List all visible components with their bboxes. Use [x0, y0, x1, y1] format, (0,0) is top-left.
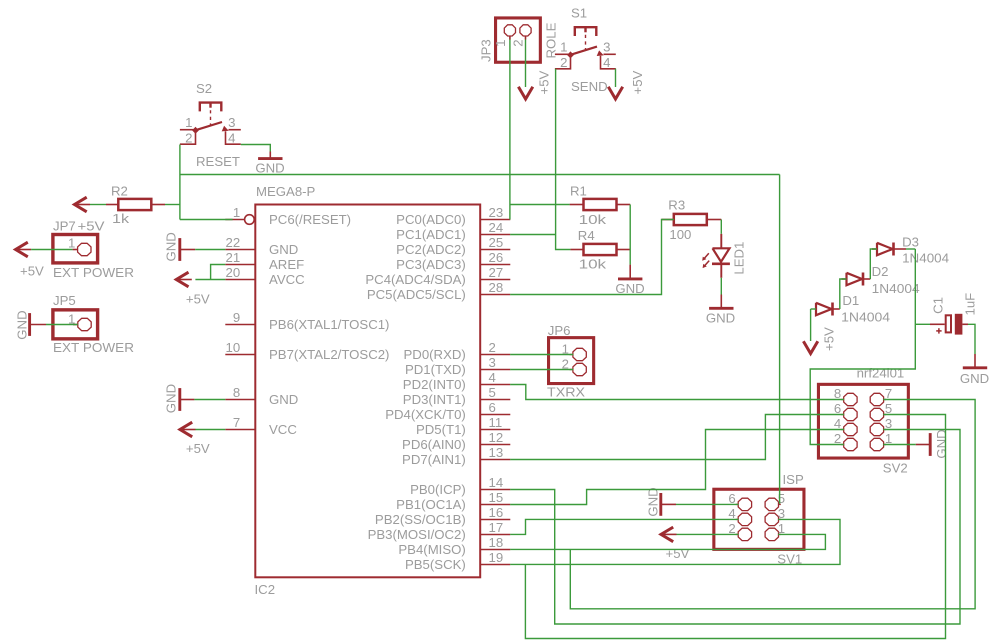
svg-text:PC3(ADC3): PC3(ADC3)	[396, 257, 466, 272]
svg-text:GND: GND	[164, 384, 179, 413]
svg-text:GND: GND	[934, 429, 949, 458]
svg-text:PC0(ADC0): PC0(ADC0)	[396, 212, 466, 227]
svg-text:PD5(T1): PD5(T1)	[416, 422, 466, 437]
svg-text:GND: GND	[706, 311, 735, 326]
svg-text:1k: 1k	[112, 211, 129, 226]
svg-text:1: 1	[885, 431, 892, 446]
svg-text:1: 1	[68, 235, 75, 250]
svg-text:R1: R1	[570, 184, 587, 199]
svg-text:PD0(RXD): PD0(RXD)	[404, 347, 466, 362]
svg-text:R3: R3	[668, 198, 685, 213]
svg-text:18: 18	[489, 535, 504, 550]
svg-text:PC2(ADC2): PC2(ADC2)	[396, 242, 466, 257]
svg-text:26: 26	[489, 250, 504, 265]
svg-text:16: 16	[489, 505, 504, 520]
svg-text:3: 3	[778, 506, 785, 521]
svg-text:R4: R4	[578, 228, 595, 243]
svg-text:C1: C1	[931, 297, 946, 314]
svg-text:23: 23	[489, 205, 504, 220]
svg-text:5: 5	[885, 401, 892, 416]
svg-text:2: 2	[728, 521, 735, 536]
svg-text:JP3: JP3	[478, 39, 493, 62]
svg-text:PD4(XCK/T0): PD4(XCK/T0)	[385, 407, 466, 422]
svg-text:7: 7	[233, 415, 240, 430]
svg-text:nrf24l01: nrf24l01	[857, 366, 905, 381]
svg-text:PB1(OC1A): PB1(OC1A)	[396, 497, 466, 512]
svg-text:GND: GND	[645, 487, 660, 516]
svg-text:+5V: +5V	[822, 327, 837, 351]
svg-text:PD3(INT1): PD3(INT1)	[403, 392, 466, 407]
svg-text:1N4004: 1N4004	[841, 309, 890, 324]
svg-text:RESET: RESET	[196, 154, 240, 169]
svg-text:1: 1	[233, 205, 240, 220]
svg-text:PC4(ADC4/SDA): PC4(ADC4/SDA)	[365, 272, 465, 287]
svg-text:GND: GND	[164, 232, 179, 261]
svg-text:PB7(XTAL2/TOSC2): PB7(XTAL2/TOSC2)	[269, 347, 389, 362]
svg-text:+5V: +5V	[186, 441, 210, 456]
svg-text:1: 1	[560, 40, 567, 55]
svg-text:20: 20	[226, 265, 241, 280]
svg-text:SEND: SEND	[571, 79, 608, 94]
svg-text:21: 21	[226, 250, 241, 265]
svg-text:3: 3	[228, 115, 235, 130]
svg-text:S1: S1	[571, 5, 587, 20]
svg-text:3: 3	[489, 355, 496, 370]
svg-text:GND: GND	[269, 392, 298, 407]
svg-text:4: 4	[834, 416, 841, 431]
svg-text:GND: GND	[269, 242, 298, 257]
svg-text:1: 1	[493, 39, 508, 46]
svg-text:PB6(XTAL1/TOSC1): PB6(XTAL1/TOSC1)	[269, 317, 389, 332]
svg-text:EXT POWER: EXT POWER	[53, 340, 134, 355]
svg-text:PD6(AIN0): PD6(AIN0)	[402, 437, 466, 452]
svg-text:D2: D2	[872, 264, 889, 279]
svg-text:R2: R2	[111, 183, 128, 198]
svg-text:2: 2	[489, 340, 496, 355]
svg-text:D1: D1	[842, 293, 859, 308]
svg-text:SV2: SV2	[883, 461, 908, 476]
svg-text:5: 5	[489, 385, 496, 400]
svg-text:JP6: JP6	[548, 323, 571, 338]
svg-text:PB2(SS/OC1B): PB2(SS/OC1B)	[375, 512, 466, 527]
svg-text:4: 4	[228, 130, 235, 145]
svg-text:AVCC: AVCC	[269, 272, 305, 287]
svg-text:22: 22	[226, 235, 241, 250]
svg-text:EXT POWER: EXT POWER	[53, 265, 134, 280]
svg-text:AREF: AREF	[269, 257, 304, 272]
svg-text:1N4004: 1N4004	[902, 251, 949, 266]
svg-text:PB4(MISO): PB4(MISO)	[398, 542, 465, 557]
svg-text:10k: 10k	[579, 257, 607, 272]
svg-text:S2: S2	[196, 81, 212, 96]
svg-text:+5V: +5V	[20, 263, 44, 278]
svg-text:14: 14	[489, 475, 504, 490]
svg-text:PC5(ADC5/SCL): PC5(ADC5/SCL)	[367, 287, 466, 302]
svg-text:1: 1	[185, 115, 192, 130]
svg-text:2: 2	[510, 39, 525, 46]
svg-text:4: 4	[728, 506, 735, 521]
svg-text:+5V: +5V	[186, 291, 210, 306]
svg-text:PC1(ADC1): PC1(ADC1)	[396, 227, 466, 242]
svg-text:6: 6	[728, 491, 735, 506]
svg-text:PD1(TXD): PD1(TXD)	[405, 362, 466, 377]
svg-text:PB0(ICP): PB0(ICP)	[410, 482, 466, 497]
svg-text:3: 3	[603, 40, 610, 55]
svg-text:JP5: JP5	[53, 293, 76, 308]
svg-text:15: 15	[489, 490, 504, 505]
svg-text:100: 100	[669, 227, 691, 242]
svg-text:7: 7	[885, 386, 892, 401]
svg-text:13: 13	[489, 445, 504, 460]
svg-text:IC2: IC2	[255, 582, 276, 597]
svg-text:GND: GND	[255, 161, 284, 176]
svg-text:19: 19	[489, 550, 504, 565]
svg-text:PD2(INT0): PD2(INT0)	[403, 377, 466, 392]
svg-text:6: 6	[834, 401, 841, 416]
svg-text:17: 17	[489, 520, 504, 535]
svg-text:2: 2	[185, 130, 192, 145]
svg-text:5: 5	[778, 491, 785, 506]
svg-text:PB3(MOSI/OC2): PB3(MOSI/OC2)	[368, 527, 466, 542]
svg-text:GND: GND	[15, 310, 30, 339]
svg-text:ROLE: ROLE	[544, 22, 559, 58]
svg-text:9: 9	[233, 310, 240, 325]
svg-text:PC6(/RESET): PC6(/RESET)	[269, 212, 351, 227]
svg-text:MEGA8-P: MEGA8-P	[256, 184, 316, 199]
svg-text:4: 4	[603, 55, 610, 70]
svg-text:2: 2	[834, 431, 841, 446]
svg-text:D3: D3	[902, 235, 919, 250]
svg-text:10k: 10k	[579, 212, 607, 227]
svg-text:12: 12	[489, 430, 504, 445]
svg-text:11: 11	[489, 415, 503, 430]
svg-text:1: 1	[778, 521, 785, 536]
svg-text:JP7: JP7	[53, 218, 76, 233]
svg-text:25: 25	[489, 235, 504, 250]
svg-text:VCC: VCC	[269, 422, 297, 437]
svg-text:4: 4	[489, 370, 496, 385]
svg-text:ISP: ISP	[783, 472, 804, 487]
svg-text:27: 27	[489, 265, 504, 280]
svg-text:24: 24	[489, 220, 504, 235]
svg-text:+5V: +5V	[78, 218, 105, 233]
svg-text:10: 10	[226, 340, 241, 355]
svg-text:LED1: LED1	[731, 242, 746, 275]
svg-text:6: 6	[489, 400, 496, 415]
svg-text:+5V: +5V	[666, 546, 690, 561]
svg-text:28: 28	[489, 280, 504, 295]
svg-text:+5V: +5V	[537, 70, 552, 94]
svg-text:1uF: 1uF	[963, 293, 978, 316]
svg-text:8: 8	[834, 386, 841, 401]
svg-text:+5V: +5V	[630, 70, 645, 94]
svg-text:TXRX: TXRX	[547, 384, 585, 399]
svg-text:GND: GND	[960, 371, 989, 386]
svg-text:PD7(AIN1): PD7(AIN1)	[402, 452, 466, 467]
svg-text:2: 2	[560, 55, 567, 70]
svg-text:1N4004: 1N4004	[872, 281, 920, 296]
svg-text:PB5(SCK): PB5(SCK)	[405, 557, 466, 572]
svg-text:3: 3	[885, 416, 892, 431]
svg-text:8: 8	[233, 385, 240, 400]
